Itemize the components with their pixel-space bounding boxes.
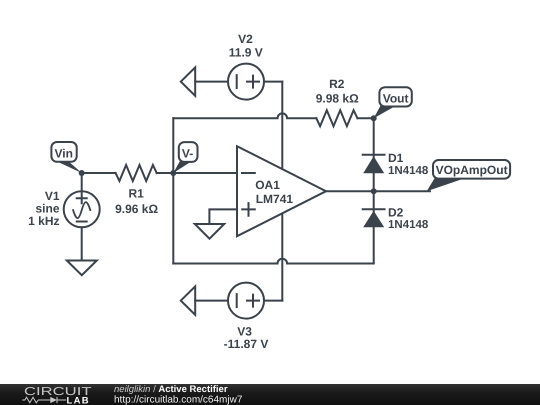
- voltage source V1: [64, 191, 100, 227]
- wire Vin node to R1: [82, 172, 116, 174]
- ground under V1: [67, 261, 97, 276]
- node flag Vout: [374, 87, 412, 118]
- wire op-amp V- power pin: [281, 213, 283, 300]
- svg-text:1N4148: 1N4148: [388, 165, 429, 177]
- svg-text:1N4148: 1N4148: [388, 219, 429, 231]
- svg-text:D2: D2: [388, 205, 404, 219]
- wire V3 left: [195, 300, 228, 302]
- svg-text:-11.87 V: -11.87 V: [224, 337, 269, 351]
- node flag Vin: [51, 142, 81, 173]
- CircuitLab logo circuit squiggle: [22, 397, 66, 403]
- svg-text:OA1: OA1: [255, 178, 280, 192]
- ground at op-amp plus input: [195, 224, 224, 239]
- svg-text:1 kHz: 1 kHz: [28, 214, 59, 228]
- resistor R1: [116, 165, 157, 181]
- op-amp OA1: [237, 146, 326, 236]
- wire V2 right: [264, 81, 282, 83]
- wire diode branch vertical: [373, 118, 375, 263]
- voltage source V3: [228, 283, 264, 319]
- node V- junction dot: [170, 170, 176, 176]
- voltage source V2: [228, 64, 264, 100]
- svg-text:LM741: LM741: [256, 192, 294, 206]
- node VOpAmpOut junction dot: [371, 188, 377, 194]
- op-amp minus input mark: [242, 172, 255, 174]
- wire op-amp output: [326, 190, 430, 192]
- wire V2 left: [195, 81, 228, 83]
- svg-text:V2: V2: [238, 32, 253, 46]
- svg-text:VOpAmpOut: VOpAmpOut: [436, 163, 508, 177]
- svg-text:http://circuitlab.com/c64mjw7: http://circuitlab.com/c64mjw7: [114, 395, 243, 405]
- diode D2: [363, 209, 385, 227]
- node Vout junction dot: [371, 115, 377, 121]
- svg-text:R2: R2: [329, 77, 345, 91]
- wire V- feedback vertical: [172, 118, 174, 263]
- svg-text:Vout: Vout: [383, 92, 409, 106]
- resistor R2: [316, 110, 357, 126]
- wire op-amp V+ power pin: [281, 82, 283, 170]
- ground arrow left of V2: [181, 67, 195, 95]
- wire V3 right: [264, 300, 282, 302]
- node flag VOpAmpOut: [427, 160, 510, 191]
- svg-text:Vin: Vin: [54, 147, 72, 161]
- svg-text:D1: D1: [388, 151, 404, 165]
- svg-text:9.96 kΩ: 9.96 kΩ: [115, 202, 158, 216]
- diode D1: [363, 155, 385, 174]
- svg-text:V-: V-: [182, 147, 193, 161]
- wire bottom feedback with hop: [173, 259, 373, 264]
- wire V1 bottom: [81, 227, 83, 260]
- op-amp plus input mark: [242, 203, 255, 216]
- svg-text:LAB: LAB: [67, 396, 90, 405]
- svg-text:9.98 kΩ: 9.98 kΩ: [316, 92, 359, 106]
- svg-text:R1: R1: [129, 187, 145, 201]
- wire top feedback with hop: [173, 113, 316, 118]
- wire V1 top: [81, 173, 83, 191]
- svg-text:11.9 V: 11.9 V: [229, 45, 263, 59]
- svg-text:neilglikin / Active Rectifier: neilglikin / Active Rectifier: [114, 384, 228, 395]
- ground arrow left of V3: [181, 286, 195, 314]
- node flag V-: [173, 142, 197, 173]
- node Vin junction dot: [79, 170, 85, 176]
- wire R1 to op-amp inverting input: [157, 172, 237, 174]
- wire op-amp non-inverting input: [209, 209, 237, 224]
- wire R2 to Vout node: [357, 117, 373, 119]
